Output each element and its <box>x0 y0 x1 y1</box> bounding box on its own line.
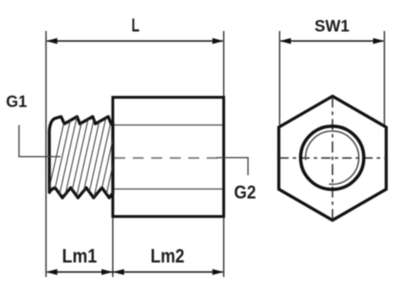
svg-text:L: L <box>132 15 140 35</box>
svg-text:G1: G1 <box>6 93 27 111</box>
svg-text:SW1: SW1 <box>315 17 350 36</box>
svg-text:Lm1: Lm1 <box>62 245 97 267</box>
svg-text:G2: G2 <box>234 182 256 202</box>
svg-text:Lm2: Lm2 <box>151 245 185 267</box>
